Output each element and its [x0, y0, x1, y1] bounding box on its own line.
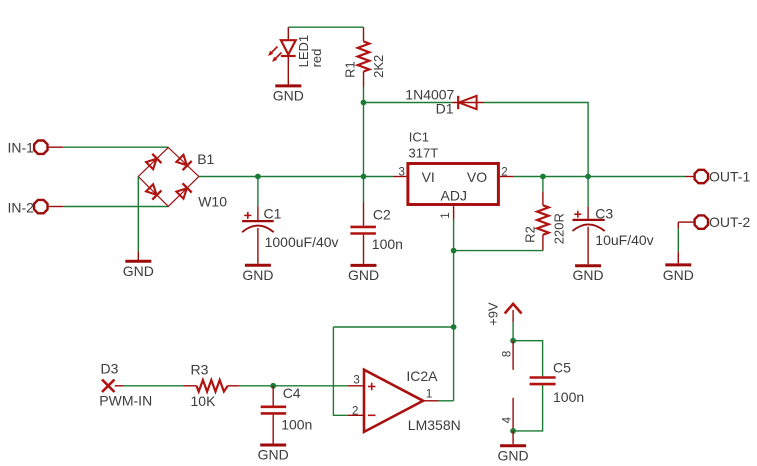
- svg-text:R2: R2: [523, 226, 538, 243]
- diode bottom-left (points down-right): [145, 183, 161, 199]
- wire +9V to pin8 node: [512, 322, 514, 341]
- svg-text:4: 4: [502, 416, 514, 423]
- wire C3 drop: [587, 177, 589, 207]
- ground B1: [123, 261, 154, 279]
- bridge rectifier B1: [138, 148, 199, 207]
- svg-text:1: 1: [426, 389, 432, 401]
- svg-text:VO: VO: [467, 169, 487, 185]
- wire bridge left vertex to GND: [137, 177, 139, 252]
- ground C5: [498, 446, 529, 464]
- ground C1: [242, 265, 273, 283]
- svg-text:C1: C1: [264, 205, 282, 221]
- svg-text:GND: GND: [273, 87, 304, 103]
- ground C2: [348, 265, 379, 283]
- node R1/D1 junction: [361, 100, 367, 106]
- node C3 junction: [585, 174, 591, 180]
- svg-text:PWM-IN: PWM-IN: [99, 393, 152, 409]
- svg-text:W10: W10: [198, 194, 227, 210]
- wire D1 left: [364, 102, 453, 104]
- resistor R2: [537, 192, 549, 251]
- wire C5 bottom link: [513, 385, 543, 431]
- diode bottom-right (points up-right): [175, 183, 191, 199]
- wire IN-2 to bridge: [63, 206, 168, 208]
- wire C5 gnd lead: [512, 431, 514, 444]
- wire feedback left vertical: [333, 327, 348, 415]
- supply +9V: [505, 304, 522, 322]
- svg-text:GND: GND: [123, 263, 154, 279]
- svg-text:IN-2: IN-2: [8, 200, 35, 216]
- svg-text:2: 2: [352, 405, 358, 417]
- pad IN-1: [34, 141, 63, 154]
- wire rail right: [513, 176, 685, 178]
- svg-text:100n: 100n: [553, 389, 584, 405]
- svg-text:10K: 10K: [191, 393, 217, 409]
- svg-text:GND: GND: [663, 267, 694, 283]
- svg-text:IC2A: IC2A: [406, 368, 438, 384]
- svg-text:VI: VI: [422, 169, 435, 185]
- svg-text:8: 8: [502, 351, 514, 357]
- wire op-amp output: [439, 400, 454, 402]
- svg-text:3: 3: [353, 375, 359, 387]
- ground C3: [573, 266, 604, 284]
- wire R2 drop: [542, 177, 544, 192]
- svg-text:LM358N: LM358N: [408, 417, 461, 433]
- capacitor C2: [350, 202, 376, 264]
- node ADJ junction: [451, 248, 457, 254]
- svg-text:GND: GND: [258, 447, 289, 463]
- diode top-right (points down-right): [175, 154, 191, 170]
- node pin4 junction: [510, 428, 516, 434]
- svg-text:1: 1: [440, 212, 452, 218]
- wire ADJ net to R2 bottom: [454, 220, 543, 251]
- node C1 junction: [255, 174, 261, 180]
- node R2 junction: [540, 174, 546, 180]
- svg-text:C4: C4: [283, 385, 301, 401]
- svg-text:GND: GND: [242, 267, 273, 283]
- wire R3 to op-amp: [240, 385, 348, 387]
- svg-text:2: 2: [501, 167, 507, 179]
- svg-text:ADJ: ADJ: [441, 188, 467, 204]
- node pin8 junction: [510, 338, 516, 344]
- svg-text:D3: D3: [101, 360, 119, 376]
- capacitor C3: [573, 207, 605, 265]
- node feedback junction: [451, 324, 457, 330]
- terminal D3 PWM-IN: [102, 380, 124, 393]
- wire feedback horizontal: [333, 326, 453, 328]
- LED LED1: [268, 27, 296, 84]
- wire OUT-2 to GND: [677, 229, 679, 252]
- svg-text:220R: 220R: [552, 213, 567, 244]
- wire main rail left: [199, 176, 393, 178]
- svg-text:OUT-1: OUT-1: [709, 169, 750, 185]
- svg-text:3: 3: [399, 167, 405, 179]
- svg-text:100n: 100n: [372, 236, 403, 252]
- svg-text:2K2: 2K2: [371, 55, 386, 78]
- resistor R1: [358, 27, 370, 87]
- wire C5 top link: [513, 341, 543, 377]
- ground OUT-2: [663, 265, 694, 283]
- svg-text:IC1: IC1: [409, 130, 429, 145]
- svg-text:B1: B1: [197, 151, 214, 167]
- node C4 junction: [270, 383, 276, 389]
- svg-text:100n: 100n: [281, 416, 312, 432]
- pad OUT-1: [685, 170, 708, 183]
- svg-text:10uF/40v: 10uF/40v: [595, 232, 653, 248]
- pad OUT-2: [678, 215, 708, 228]
- svg-text:C3: C3: [595, 206, 613, 222]
- wire feedback vertical from ADJ: [453, 251, 455, 401]
- wire C2 drop: [363, 177, 365, 203]
- diode top-left (points up-right): [145, 154, 161, 170]
- pin 4 stub: [512, 398, 514, 431]
- ground C4: [258, 445, 289, 463]
- wire top LED1 to R1: [288, 26, 363, 28]
- svg-text:OUT-2: OUT-2: [709, 214, 750, 230]
- svg-text:1000uF/40v: 1000uF/40v: [265, 234, 339, 250]
- pin 8 stub: [512, 341, 514, 370]
- wire IN-1 to bridge: [63, 146, 168, 148]
- wire D3 to R3: [124, 385, 184, 387]
- diode D1: [452, 96, 484, 109]
- capacitor C5: [530, 378, 556, 385]
- wire bridge GND lead: [137, 252, 139, 261]
- svg-text:GND: GND: [498, 448, 529, 464]
- svg-text:C5: C5: [553, 360, 571, 376]
- svg-text:+9V: +9V: [486, 302, 501, 326]
- svg-text:C2: C2: [373, 207, 391, 223]
- svg-text:IN-1: IN-1: [8, 140, 35, 156]
- svg-text:red: red: [309, 49, 324, 68]
- ground LED1: [273, 86, 304, 103]
- wire R1 to junction to rail: [363, 87, 365, 177]
- wire OUT-2 gnd lead: [677, 251, 679, 263]
- svg-text:R1: R1: [343, 61, 358, 78]
- wire C1 drop: [257, 177, 259, 207]
- svg-text:317T: 317T: [409, 146, 439, 161]
- capacitor C1: [242, 206, 274, 264]
- svg-text:R3: R3: [191, 361, 209, 377]
- svg-text:D1: D1: [436, 101, 454, 117]
- node C2 junction: [361, 174, 367, 180]
- IC1 regulator 317T: [393, 164, 514, 220]
- wire D1 right down to rail: [484, 103, 588, 177]
- svg-text:GND: GND: [348, 267, 379, 283]
- capacitor C4: [261, 386, 287, 444]
- pad IN-2: [34, 200, 63, 213]
- resistor R3: [183, 380, 240, 392]
- op-amp IC2A: [348, 370, 439, 432]
- svg-text:GND: GND: [573, 267, 604, 283]
